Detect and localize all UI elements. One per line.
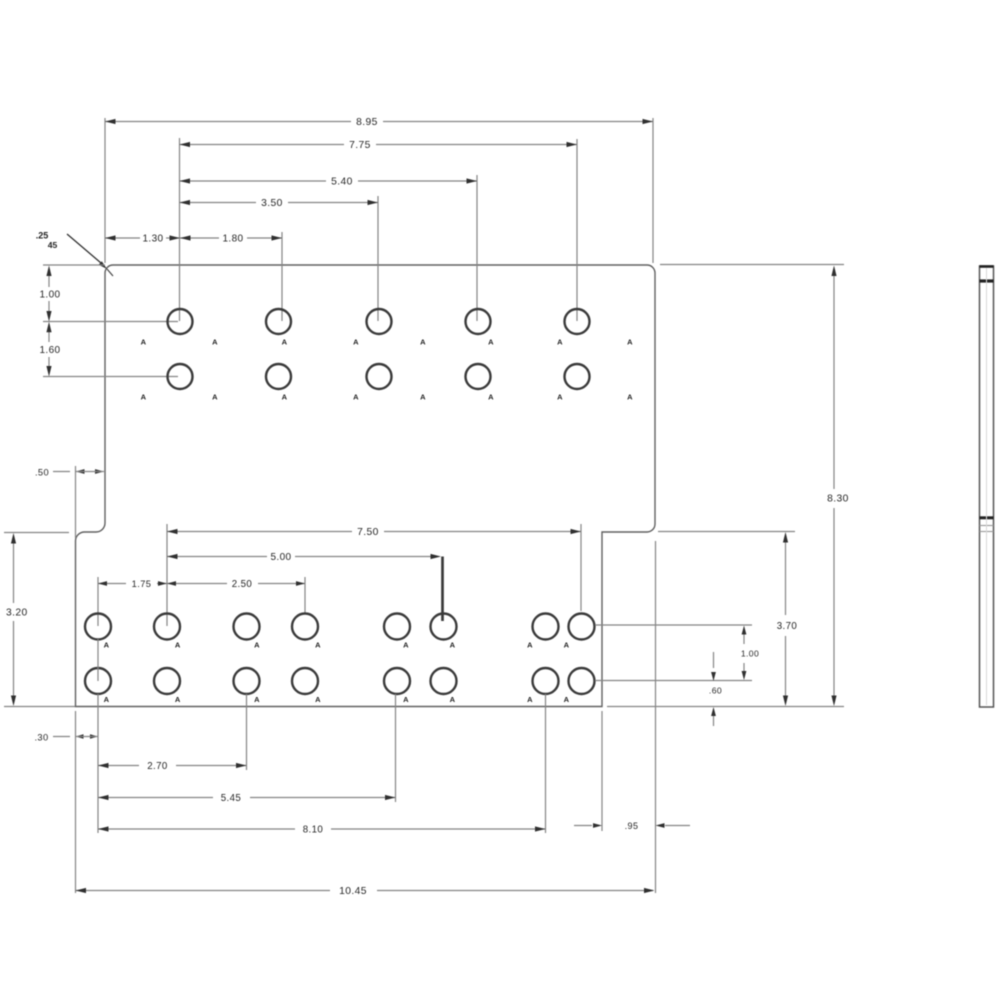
svg-text:A: A: [527, 695, 533, 704]
svg-text:1.80: 1.80: [222, 234, 243, 245]
svg-text:1.60: 1.60: [39, 345, 60, 356]
svg-text:.25: .25: [36, 231, 49, 241]
svg-text:1.30: 1.30: [142, 234, 163, 245]
svg-text:A: A: [141, 338, 147, 347]
svg-text:5.45: 5.45: [221, 793, 241, 804]
svg-text:.60: .60: [709, 686, 722, 696]
svg-text:3.70: 3.70: [777, 621, 798, 632]
svg-text:A: A: [488, 393, 494, 402]
svg-text:A: A: [104, 695, 110, 704]
svg-text:5.00: 5.00: [270, 552, 291, 563]
svg-text:A: A: [557, 393, 563, 402]
svg-text:8.95: 8.95: [356, 117, 378, 128]
svg-text:1.75: 1.75: [132, 579, 152, 589]
svg-text:8.10: 8.10: [303, 825, 324, 836]
svg-text:A: A: [315, 641, 321, 650]
svg-text:A: A: [627, 338, 633, 347]
svg-text:8.30: 8.30: [827, 494, 849, 505]
svg-text:1.00: 1.00: [39, 290, 60, 301]
svg-text:A: A: [488, 338, 494, 347]
svg-text:A: A: [282, 393, 288, 402]
svg-text:A: A: [212, 393, 218, 402]
svg-text:A: A: [104, 641, 110, 650]
svg-text:A: A: [450, 695, 456, 704]
svg-text:A: A: [557, 338, 563, 347]
svg-text:A: A: [254, 641, 260, 650]
svg-text:45: 45: [48, 240, 58, 250]
svg-text:A: A: [564, 695, 570, 704]
svg-text:A: A: [527, 641, 533, 650]
svg-text:A: A: [254, 695, 260, 704]
svg-text:A: A: [403, 641, 409, 650]
svg-text:1.00: 1.00: [741, 649, 759, 659]
svg-text:A: A: [564, 641, 570, 650]
svg-text:A: A: [315, 695, 321, 704]
svg-text:A: A: [353, 393, 359, 402]
svg-text:A: A: [353, 338, 359, 347]
svg-text:A: A: [420, 393, 426, 402]
svg-text:A: A: [212, 338, 218, 347]
svg-text:.30: .30: [34, 733, 48, 743]
svg-text:A: A: [175, 695, 181, 704]
svg-text:A: A: [141, 393, 147, 402]
svg-text:5.40: 5.40: [331, 177, 353, 188]
svg-text:7.50: 7.50: [357, 527, 379, 538]
svg-text:2.70: 2.70: [147, 761, 168, 772]
svg-text:A: A: [175, 641, 181, 650]
svg-text:A: A: [403, 695, 409, 704]
svg-text:A: A: [450, 641, 456, 650]
svg-text:A: A: [282, 338, 288, 347]
svg-text:3.50: 3.50: [261, 198, 283, 209]
svg-text:.50: .50: [35, 468, 49, 478]
svg-text:7.75: 7.75: [349, 140, 371, 151]
svg-text:A: A: [627, 393, 633, 402]
svg-text:3.20: 3.20: [6, 608, 28, 619]
svg-text:A: A: [420, 338, 426, 347]
svg-text:.95: .95: [625, 821, 639, 831]
svg-text:10.45: 10.45: [339, 886, 367, 897]
svg-text:2.50: 2.50: [232, 579, 253, 590]
